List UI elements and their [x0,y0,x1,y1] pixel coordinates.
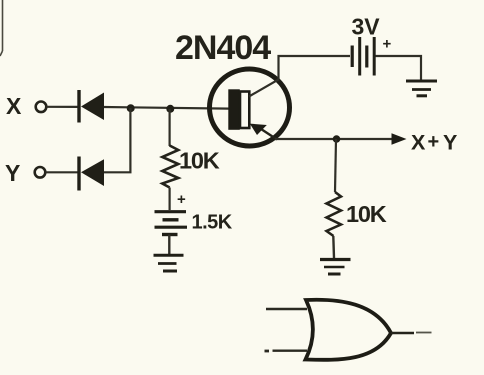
emitter wire Q1 [258,127,277,140]
wire X terminal to diode D1 [47,106,79,108]
OR gate output stub [391,331,432,334]
resistor R2 10K (load) [327,192,342,236]
OR gate body [306,300,392,360]
ground (below B2) [406,81,437,96]
wire D2 to node A [104,108,130,172]
wire R2 to ground [332,236,335,258]
OR gate input stub top [266,308,307,311]
emitter arrow (PNP) [250,124,267,135]
transistor Q1 circle [210,69,290,146]
OR gate input stub bottom [265,349,308,352]
wire B2 to ground [376,56,422,80]
svg-text:+: + [428,131,440,153]
collector wire Q1 to battery B2 [249,56,350,97]
battery B2 3V plates [352,37,374,76]
wire node B down to resistor R1 [169,109,171,146]
svg-text:Y: Y [443,131,457,155]
input terminal X [36,102,47,113]
svg-text:2N404: 2N404 [175,29,271,67]
svg-text:+: + [177,191,186,208]
resistor R1 10K (bias) [162,146,178,188]
wire node C down to resistor R2 [335,139,336,192]
wire B1 to ground [168,235,170,255]
svg-text:X: X [411,131,426,155]
svg-text:3V: 3V [352,14,381,40]
transistor Q1 base bar (filled) [228,89,240,130]
wire R1 to battery B1 [169,188,171,211]
output wire emitter to X+Y [275,138,393,140]
svg-text:Y: Y [5,160,20,186]
svg-text:+: + [383,36,392,53]
svg-text:10K: 10K [179,148,220,174]
wire D1 to node A [104,107,229,109]
node C junction dot [333,135,341,143]
svg-text:1.5K: 1.5K [192,212,233,234]
svg-text:10K: 10K [346,201,387,227]
node A junction dot [127,104,135,112]
ground (below R2) [320,260,351,275]
input terminal Y [35,167,46,178]
page edge mark top-left [0,0,3,56]
battery B1 1.5K plates [155,212,188,235]
ground (below B1) [154,255,184,271]
diode D2 (input Y) [77,157,104,191]
transistor Q1 base bar (outlined) [240,92,249,129]
output arrowhead [392,133,407,144]
wire Y terminal to diode D2 [46,171,79,173]
node B junction dot [166,105,174,113]
diode D1 (input X) [77,90,104,123]
svg-text:X: X [6,93,22,119]
